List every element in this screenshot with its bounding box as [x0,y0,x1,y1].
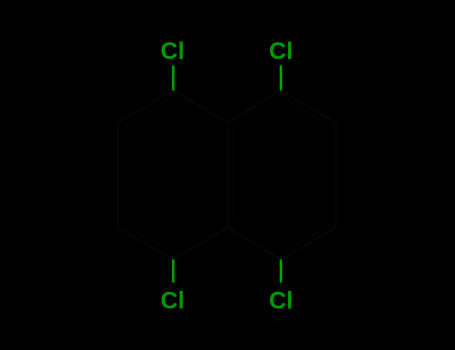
bond C7-C6 (left ring left vertical edge) [117,123,119,228]
bond C6-C5 (lower-left ring diagonal) [118,228,173,260]
bond C5-Cl stub (bottom-left, chlorine colored) [172,260,175,283]
svg-text:Cl: Cl [269,38,293,65]
bond C1-Cl stub (top-right, chlorine colored) [280,66,283,91]
double bond inner line C5=C6 [125,225,171,252]
bond C2-C3 (right ring right vertical edge) [335,123,337,228]
bond C1-C2 (upper-right ring diagonal) [281,91,336,123]
svg-text:Cl: Cl [161,38,185,65]
bond C8-Cl stub (top-left, chlorine colored) [172,66,175,91]
bond C4-Cl stub (bottom-right, chlorine colored) [280,260,283,283]
double bond inner line C3=C4 [283,225,329,252]
bond C4-C4a (lower inner-right diagonal) [228,228,281,260]
bond C5-C4a (lower inner-left diagonal) [173,228,227,260]
bond C8a-C1 (upper inner-right diagonal) [228,91,281,123]
bond C8a-C8 (upper inner-left diagonal) [173,91,227,123]
svg-text:Cl: Cl [161,288,185,315]
double bond inner line C8a=C4a [233,129,235,222]
bond C4a-C8a (central fusion bond) [227,123,229,228]
double bond inner line C7=C8 [125,99,171,126]
svg-text:Cl: Cl [269,288,293,315]
double bond inner line C1=C2 [283,99,329,126]
bond C3-C4 (lower-right ring diagonal) [281,228,336,260]
bond C8-C7 (upper-left ring diagonal) [118,91,173,123]
